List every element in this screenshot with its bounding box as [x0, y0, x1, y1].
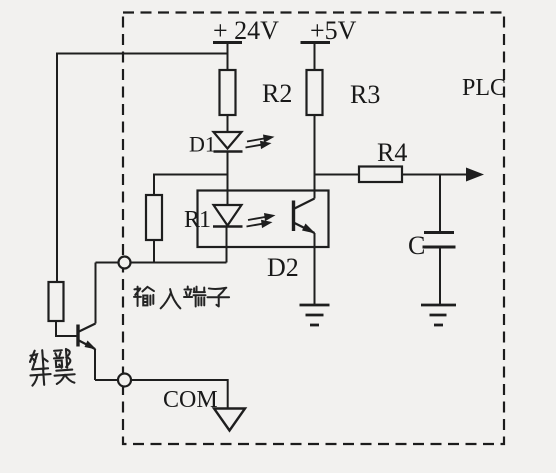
resistor R2 [220, 70, 236, 115]
optocoupler emission arrows [247, 213, 276, 228]
wire: ext resistor to transistor base [56, 321, 77, 336]
input terminal 2 (COM) [118, 374, 131, 387]
optocoupler LED [213, 205, 243, 227]
wire: R2 to D1 [227, 115, 229, 132]
wire: node to capacitor C [439, 175, 441, 232]
svg-text:R4: R4 [377, 138, 407, 167]
wire: +5V bar to R3 [314, 43, 316, 71]
PLC boundary dashed box [123, 13, 504, 445]
wire: emitter down to COM wire [94, 349, 96, 380]
+24V rail bar [213, 41, 242, 44]
wire: branch to R1 (node at y=174.5) [154, 175, 228, 196]
wire: optocoupler LED cathode to terminal wire [226, 227, 228, 263]
wire: phototransistor collector up to R3/R4 node [314, 175, 316, 199]
svg-text:+5V: +5V [310, 16, 357, 45]
wire: +24V rail to external circuit left feed [57, 54, 228, 283]
phototransistor D2 [294, 199, 316, 234]
wire: node to R4 [315, 174, 360, 176]
resistor R1 [146, 195, 162, 240]
wire: input terminal row (node to opto cathode) [96, 262, 227, 264]
svg-text:+ 24V: + 24V [213, 16, 279, 45]
output arrow head [466, 168, 484, 182]
ground (emitter) [300, 305, 330, 325]
wire: COM row to COM terminal symbol [95, 380, 228, 408]
external resistor [49, 282, 64, 321]
wire: phototransistor emitter down to ground [314, 233, 316, 304]
wire: R1 bottom to input-terminal wire [153, 240, 155, 263]
optocoupler box U1 [198, 191, 329, 248]
capacitor C plates [423, 233, 456, 248]
D1 emission arrows [246, 135, 275, 150]
svg-text:R2: R2 [262, 79, 292, 108]
label 外部 (external) [29, 348, 71, 370]
ground (capacitor) [421, 305, 456, 325]
wire: R4 to output arrow [402, 174, 481, 176]
wire: D1 to optocoupler LED [227, 152, 229, 206]
svg-text:COM: COM [163, 387, 218, 413]
+5V rail bar [301, 41, 331, 44]
COM ground triangle [214, 409, 245, 431]
transistor Q1 (external switch) [78, 324, 97, 350]
wire: collector up to terminal-1 wire [95, 263, 97, 324]
wire: +24V bar to R2 [227, 43, 229, 71]
svg-text:R3: R3 [350, 80, 380, 109]
label 输入端子 (input terminals) [134, 286, 229, 308]
svg-text:C: C [408, 231, 425, 260]
label 开关 (switch) [30, 363, 75, 386]
resistor R4 [359, 167, 402, 183]
resistor R3 [307, 70, 323, 115]
svg-text:D2: D2 [267, 253, 299, 282]
svg-text:PLC: PLC [462, 75, 506, 101]
wire: R3 to node [314, 115, 316, 175]
svg-text:D1: D1 [189, 132, 216, 157]
diode D1 (LED) [214, 132, 243, 152]
wire: capacitor to ground [439, 248, 441, 304]
input terminal 1 [119, 257, 131, 269]
svg-text:R1: R1 [184, 207, 210, 233]
